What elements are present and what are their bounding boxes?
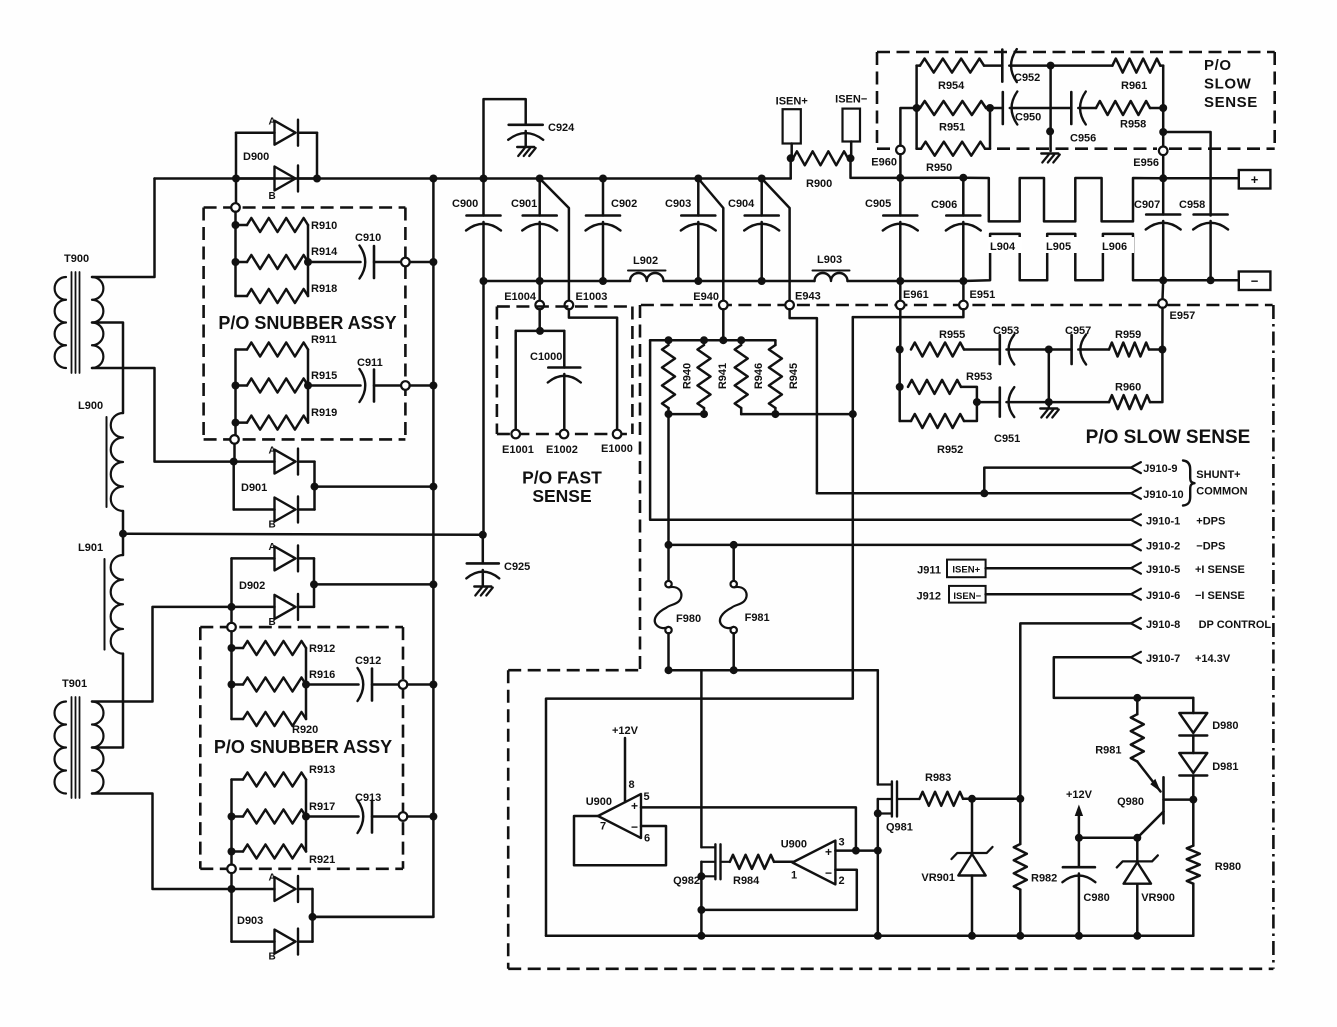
connector J910-9 [1131,462,1178,475]
wire C900 bottom to C925 [482,281,485,535]
ground slow sense 1 [1041,154,1060,163]
capacitor C957 [1049,325,1109,365]
svg-text:L905: L905 [1046,241,1071,253]
resistor R958 [1096,101,1163,131]
svg-text:Q981: Q981 [886,822,913,834]
node F980 out [665,666,673,674]
label snubber1 [218,313,396,333]
svg-text:R982: R982 [1031,873,1057,885]
wire E960 down [899,154,902,178]
wire top bus left [155,177,791,180]
node C913 bus junction [429,813,437,821]
capacitor C911 [308,357,401,402]
terminal C912 out [399,680,408,689]
diode D900-A [236,117,317,146]
wire +12V supply U900a [612,725,639,802]
wire C1000 node line [516,330,565,333]
inductor L900 [78,400,123,511]
resistor R900 [793,151,848,190]
svg-text:A: A [269,445,276,456]
terminal E1003 [565,291,608,309]
wire +DPS line [650,340,1131,520]
label D903 [237,915,263,927]
node snubber bus top [429,175,437,183]
wire plus line [1163,177,1239,180]
node C958 bottom [1207,276,1215,284]
svg-text:+: + [825,845,832,859]
svg-text:ISEN−: ISEN− [953,591,981,602]
node R983 out R982 [1016,795,1024,803]
wire slow2 left vertical [898,350,901,422]
capacitor C913 [306,792,399,833]
svg-text:R951: R951 [939,122,965,134]
wire bottom bus [546,935,1193,938]
svg-text:SLOW: SLOW [1204,76,1252,93]
svg-text:C924: C924 [548,122,575,134]
resistor R917 [232,801,336,824]
node R941 bottom [700,410,708,418]
slow sense box 1 top edge [877,51,1275,54]
node C901 top [536,175,544,183]
node C907 bottom [1159,276,1167,284]
svg-text:C925: C925 [504,561,530,573]
node R900 right [847,154,855,162]
node pin3/pin5 junction [852,847,860,855]
transistor Q980 [1117,762,1193,838]
wire R900 right to bus [851,158,901,178]
connector J910-10 [1131,488,1184,501]
label slow sense 1 [1204,57,1258,111]
terminal E957 [1158,299,1195,322]
wire bottom meander [963,234,1163,281]
wire shunt vertical [546,317,853,936]
svg-text:E961: E961 [903,289,929,301]
svg-text:+: + [1251,172,1259,187]
node R954/R951 left [913,104,921,112]
resistor R959 [1109,329,1162,357]
terminal C913 out [399,812,408,821]
label shunt brace [1183,461,1248,506]
svg-text:8: 8 [629,779,635,791]
resistor R982 [1014,799,1057,936]
svg-text:C950: C950 [1015,112,1041,124]
node pin2 feedback tie [697,906,705,914]
svg-text:3: 3 [839,837,845,849]
svg-text:+14.3V: +14.3V [1195,653,1231,665]
svg-text:R919: R919 [311,407,337,419]
node F981 out [730,666,738,674]
capacitor C900 [452,179,501,282]
wire node to C925 junction [123,534,483,535]
label pin 7 [600,821,606,833]
svg-text:Q980: Q980 [1117,796,1144,808]
svg-text:R910: R910 [311,220,337,232]
terminal snubber2 bottom [227,865,236,874]
wire D900 right vertical [316,133,319,179]
capacitor C980 [1062,838,1109,936]
capacitor C1000 [530,331,581,430]
label slow sense 2 [1086,427,1251,448]
svg-text:ISEN+: ISEN+ [952,565,980,576]
svg-text:J911: J911 [917,565,941,577]
connector J910-6 [1131,589,1245,602]
svg-text:C904: C904 [728,198,755,210]
capacitor C956 [1070,92,1096,145]
capacitor C952 [1002,49,1050,84]
wire D902 output [314,583,433,586]
node -DPS junction [665,541,673,549]
node bus R982 [1016,932,1024,940]
svg-text:COMMON: COMMON [1196,486,1247,498]
wire R961 right vertical [1162,66,1165,147]
svg-text:−: − [631,820,638,834]
snubber assembly box 2 [200,627,403,869]
wire R940 top node [650,339,775,342]
node R953 left [896,383,904,391]
svg-text:Q982: Q982 [673,875,700,887]
svg-text:R912: R912 [309,643,335,655]
wire C910 to snubber bus [410,261,434,264]
svg-text:E1000: E1000 [601,443,633,455]
svg-text:+: + [631,799,638,813]
svg-text:J912: J912 [917,591,941,603]
svg-text:R916: R916 [309,669,335,681]
svg-text:C912: C912 [355,655,381,667]
resistor R960 [1049,350,1163,410]
node bus C980 [1075,932,1083,940]
wire COMMON line [817,492,1131,495]
wire snubber2 left lower [230,780,233,865]
wire E956 down [1162,155,1165,178]
svg-text:R958: R958 [1120,119,1146,131]
terminal snubber1 top [231,203,240,212]
wire L901 top lead [122,534,125,555]
diode D903-A [232,873,313,902]
svg-text:R981: R981 [1095,745,1121,757]
label pin 3 [839,837,845,849]
capacitor C904 [728,179,779,282]
node Q982 source tie [697,872,705,880]
wire -DPS line [669,544,1131,547]
node R983 out VR901 [968,795,976,803]
diode D902-A [232,542,315,571]
node C952 out [1047,62,1055,70]
svg-text:+12V: +12V [612,725,639,737]
terminal E956 [1159,147,1168,156]
resistor R953 [908,371,992,402]
svg-text:SENSE: SENSE [1204,94,1258,111]
node F981 -DPS tap [730,541,738,549]
svg-text:5: 5 [644,791,650,803]
wire E1004 drop [538,281,541,301]
wire L901 to T901 center tap [92,654,123,748]
svg-text:P/O SLOW SENSE: P/O SLOW SENSE [1086,427,1251,448]
node C980 top [1075,834,1083,842]
svg-text:R954: R954 [938,80,965,92]
svg-text:C906: C906 [931,199,957,211]
svg-text:B: B [269,520,276,531]
svg-text:−: − [1251,274,1259,289]
node R910 left [232,221,240,229]
terminal E943 [785,291,820,310]
svg-text:−I SENSE: −I SENSE [1195,590,1245,602]
wire E1003 drop [540,179,569,301]
svg-text:U900: U900 [586,796,612,808]
resistor R921 [232,845,336,867]
resistor R912 [232,641,336,655]
capacitor C912 [306,655,399,701]
terminal snubber2 top [227,623,236,632]
terminal E951 [959,289,995,309]
terminal ISEN- [835,94,867,142]
node C910 bus junction [429,258,437,266]
wire T901 top to D902 [92,607,228,702]
capacitor C906 [931,178,981,281]
label L904 [988,237,1022,253]
capacitor C907 [1134,178,1181,280]
ground C924 [517,147,536,156]
supply +12V arrow [1066,789,1093,838]
wire R954 left vertical [915,66,918,149]
terminal E1004 [504,291,544,309]
node R945 bottom [771,410,779,418]
capacitor C901 [511,179,557,282]
svg-text:E957: E957 [1170,310,1196,322]
diode D981 [1179,736,1238,800]
terminal J911 ISEN+ [917,560,985,578]
node C905 top bus [896,174,904,182]
svg-text:J910-8: J910-8 [1146,619,1180,631]
wire Q982 drain [700,670,703,847]
inductor L901 [78,542,123,654]
node D981/R980/Q980 junction [1189,796,1197,804]
wire snubber2 left upper [230,631,233,719]
svg-text:6: 6 [644,833,650,845]
wire R946/R945 bottom [741,408,853,414]
svg-text:C911: C911 [357,357,383,369]
wire bottom bus seg2 [664,280,815,283]
svg-text:R913: R913 [309,764,335,776]
wire D901 left vertical [232,462,235,510]
svg-text:C907: C907 [1134,199,1160,211]
node C901 bottom [536,277,544,285]
svg-text:R984: R984 [733,875,760,887]
wire C913 to snubber bus [407,815,433,818]
dashed control box bottom [508,967,1273,970]
resistor R946 [735,345,765,408]
connector J910-7 [1131,652,1231,665]
svg-text:J910-7: J910-7 [1146,653,1180,665]
inductor L902 [628,255,666,281]
svg-text:L906: L906 [1102,241,1127,253]
wire D903 right vertical [311,889,314,942]
svg-text:L903: L903 [817,254,842,266]
svg-text:E960: E960 [871,157,897,169]
svg-text:L900: L900 [78,400,103,412]
label E960 [871,157,897,169]
dashed control box top [508,669,640,672]
node R959 right [1158,346,1166,354]
inductor L903 [813,254,850,281]
wire F980 drop [667,545,670,581]
svg-text:L901: L901 [78,542,103,554]
svg-text:F981: F981 [745,612,770,624]
svg-text:R952: R952 [937,444,963,456]
svg-text:C901: C901 [511,198,537,210]
resistor R918 [236,283,338,303]
node C958 branch [1159,128,1167,136]
resistor R981 [1095,698,1144,762]
svg-text:R921: R921 [309,854,335,866]
wire fuse node line [669,669,878,672]
fuse F980 [655,581,701,633]
terminal E1000 [601,430,633,455]
wire R911-R919 right vertical [307,350,310,423]
node E940 tap [719,336,727,344]
svg-text:R953: R953 [966,371,992,383]
wire snubber1 top lead [234,212,237,225]
capacitor C910 [308,232,401,279]
node +14.3V R981 tap [1133,694,1141,702]
node C925 junction [479,531,487,539]
wire C911 to snubber bus [410,384,434,387]
svg-text:VR900: VR900 [1141,892,1175,904]
transistor Q982 [673,844,730,887]
wire +14.3V line [1054,657,1194,698]
node R916 right [302,681,310,689]
capacitor C924 [484,99,576,178]
resistor R950 [917,142,990,174]
terminal plus output [1239,170,1271,189]
svg-text:C951: C951 [994,433,1020,445]
resistor R919 [236,407,338,430]
ground C925 [474,587,493,596]
terminal C911 out [401,381,410,390]
svg-text:R918: R918 [311,283,337,295]
svg-text:A: A [269,117,276,128]
wire Q981 source [877,799,880,936]
resistor R940 [662,345,694,408]
node bus VR900 [1133,932,1141,940]
wire DP CONTROL line [1020,623,1131,798]
wire D901 output [315,485,434,488]
op-amp U900b [781,839,836,885]
resistor R914 [236,246,339,269]
svg-text:D981: D981 [1212,761,1238,773]
wire bottom bus seg1 [484,280,631,283]
resistor R916 [232,669,336,692]
wire SHUNT line [984,468,1131,494]
svg-text:R959: R959 [1115,329,1141,341]
label fast sense [522,468,602,507]
node bus VR901 [968,932,976,940]
resistor R920 [232,712,319,736]
wire T900 center tap to L900 [92,323,123,414]
wire +12V node line [1079,837,1137,840]
resistor R961 [1051,59,1164,92]
node C905 bottom [896,277,904,285]
connector J910-1 [1131,514,1225,527]
wire top meander L904-L906 [963,178,1163,222]
svg-text:C905: C905 [865,198,891,210]
resistor R945 [769,340,800,414]
fast sense box [497,307,633,435]
wire E961 drop [899,281,902,301]
svg-text:R911: R911 [311,334,337,346]
svg-text:E1004: E1004 [504,291,537,303]
diode D903-B [232,929,313,963]
svg-text:2: 2 [839,875,845,887]
capacitor C903 [665,179,716,282]
diode D901-A [234,445,315,474]
svg-text:R941: R941 [717,363,729,389]
wire R940/R941 bottom [669,408,705,414]
svg-text:+I SENSE: +I SENSE [1195,564,1245,576]
svg-text:C957: C957 [1065,325,1091,337]
svg-text:E1003: E1003 [576,291,608,303]
node bus Q981 [874,932,882,940]
node slow2 center top [1045,346,1053,354]
svg-text:J910-2: J910-2 [1146,541,1180,553]
svg-text:R914: R914 [311,246,338,258]
wire E957 drop [1161,280,1164,299]
node R946 top [737,336,745,344]
wire U900b pin3 line [835,849,877,852]
node C904 top [758,175,766,183]
svg-text:R961: R961 [1121,80,1147,92]
wire E957 to R959 [1161,308,1164,350]
svg-text:R950: R950 [926,162,952,174]
wire R913-R921 right vertical [305,780,308,852]
transformer T900 [55,253,104,373]
node D902 left junction [228,603,236,611]
node C902 top [599,175,607,183]
terminal J912 ISEN- [917,586,986,603]
svg-text:ISEN−: ISEN− [835,94,867,106]
node plus bus junction [1159,174,1167,182]
node shunt sense tap [849,410,857,418]
capacitor C905 [865,178,918,281]
dash-dot control box right [1272,305,1275,969]
svg-text:J910-9: J910-9 [1143,463,1177,475]
svg-text:E1002: E1002 [546,444,578,456]
svg-text:R940: R940 [682,363,694,389]
wire D902 right vertical [313,558,316,607]
node R914 right [304,258,312,266]
resistor R910 [236,218,338,232]
svg-text:C956: C956 [1070,133,1096,145]
node bus Q982 [697,932,705,940]
dashed control box left [507,670,510,969]
node D903 left junction [228,885,236,893]
node D901 left junction [230,458,238,466]
wire L900 to node [122,511,125,534]
wire J910-5 line [986,567,1131,570]
svg-text:SHUNT+: SHUNT+ [1196,469,1240,481]
resistor R980 [1187,800,1241,936]
wire ISEN- lead [850,142,853,159]
svg-text:R900: R900 [806,178,832,190]
svg-text:+DPS: +DPS [1196,516,1225,528]
wire T901 bottom to D903 [92,794,228,890]
slow sense box 1 left edge [876,52,879,149]
node D901 output [311,483,319,491]
svg-text:T900: T900 [64,253,89,265]
node C906 bottom [959,277,967,285]
svg-text:B: B [269,191,276,202]
node C903 top [694,175,702,183]
wire bus to R900 left [789,158,792,178]
